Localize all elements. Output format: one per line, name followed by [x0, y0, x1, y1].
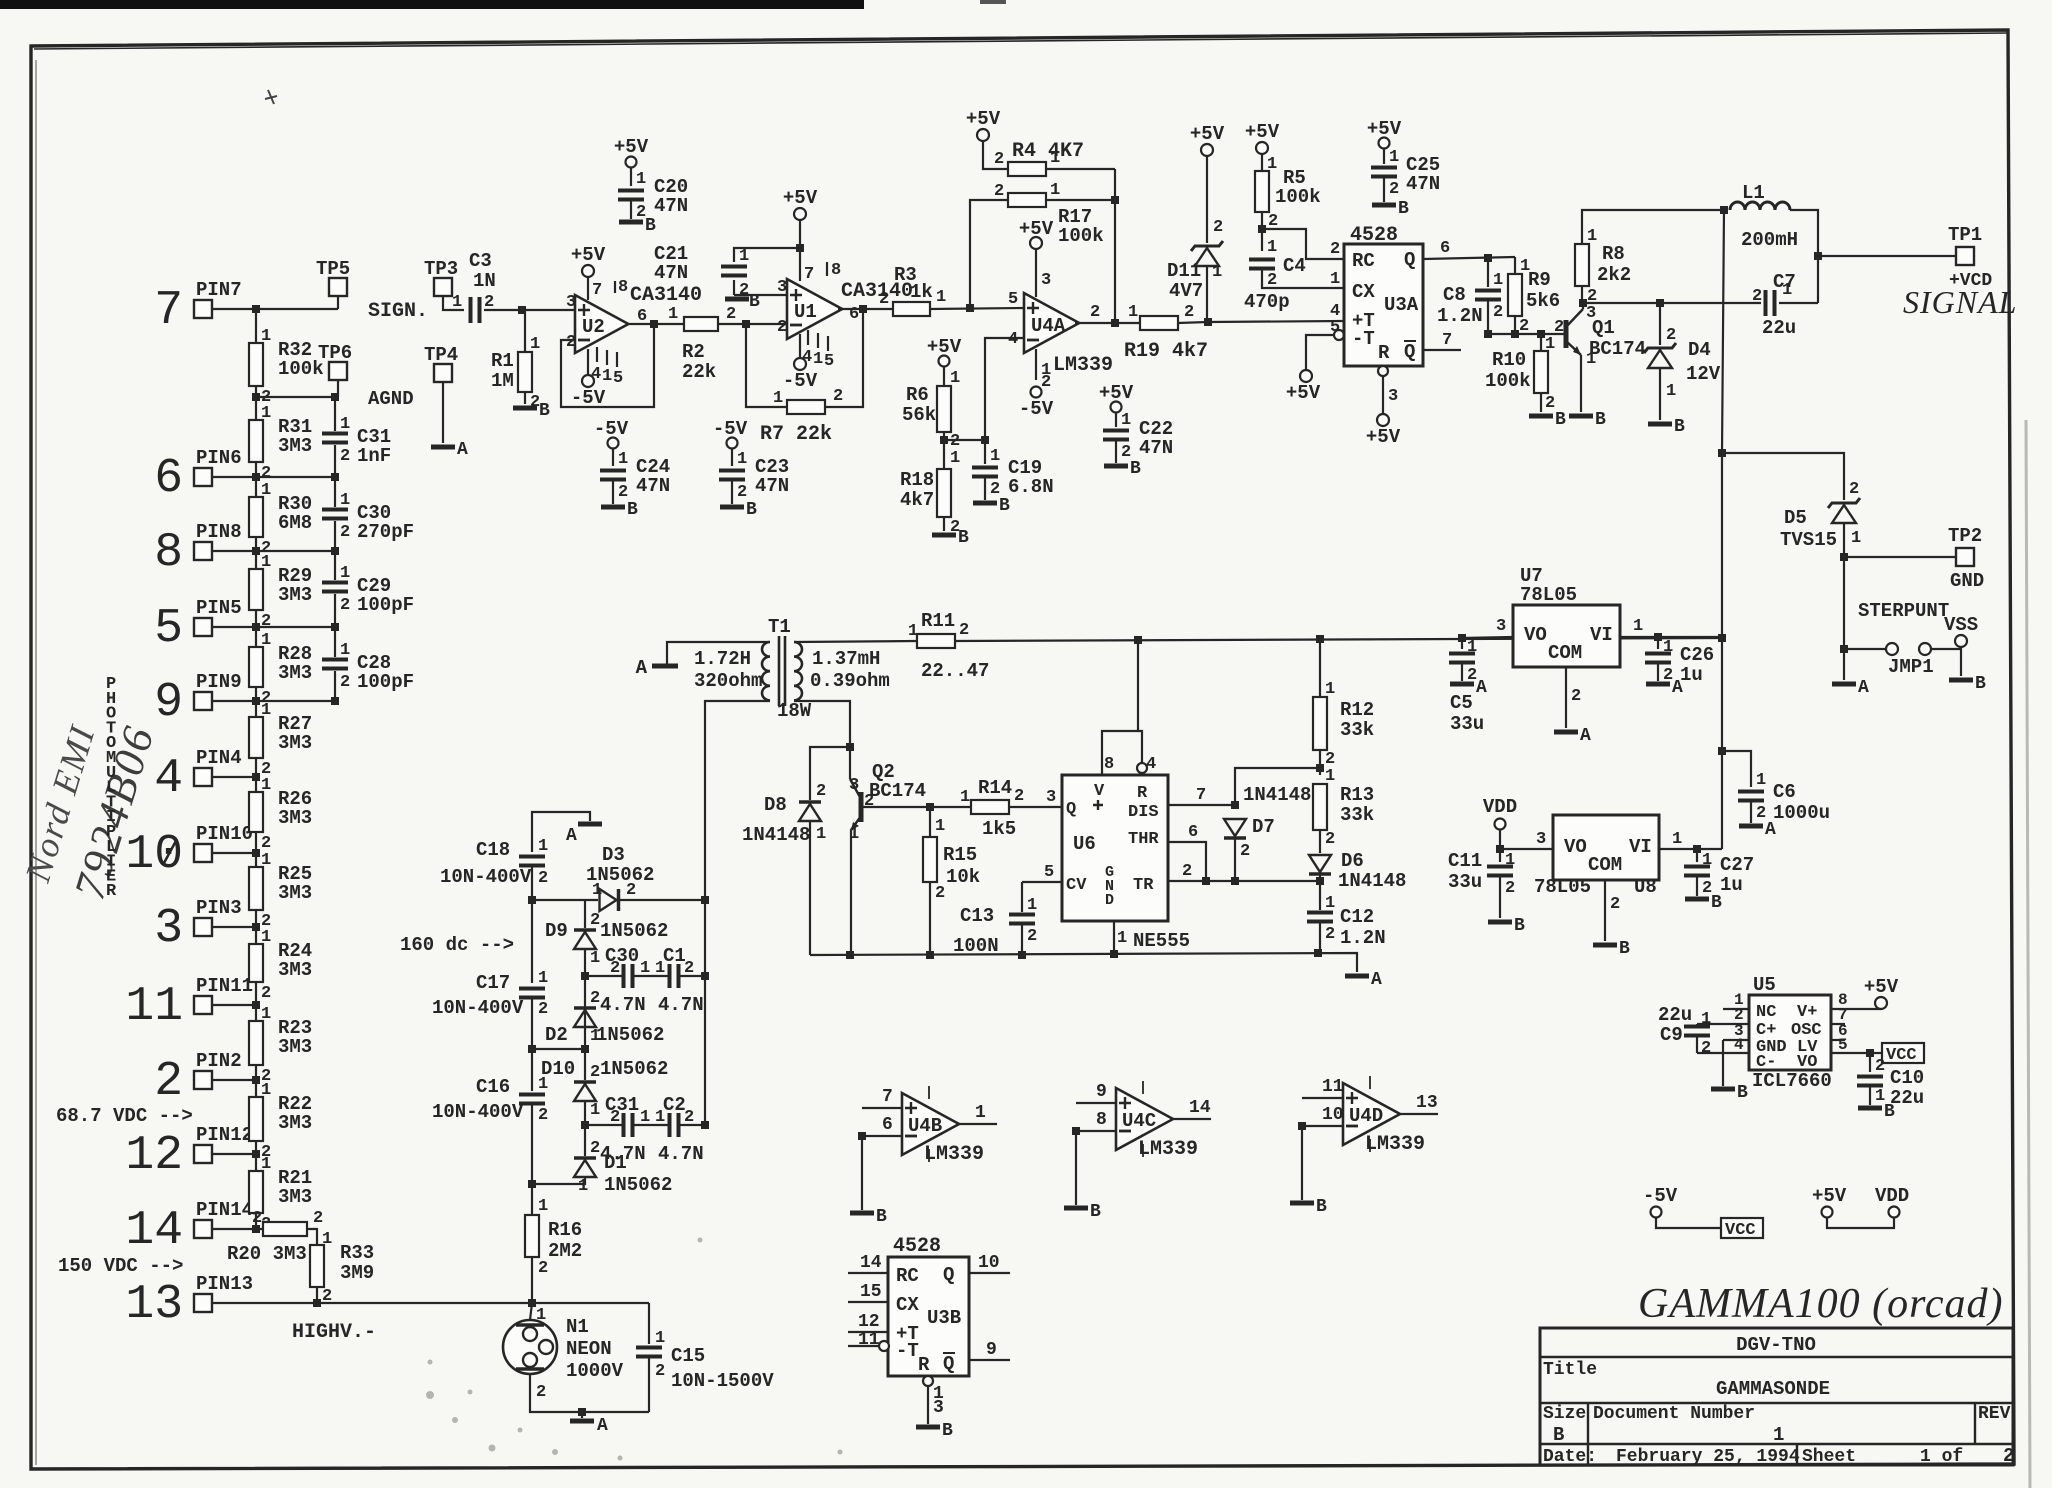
wire U7 COM pin2 — [1565, 667, 1567, 728]
svg-text:-5V: -5V — [783, 370, 818, 392]
junction — [1111, 196, 1119, 204]
junction — [1579, 299, 1587, 307]
power +5V (U3A R) — [1377, 414, 1389, 426]
svg-text:1: 1 — [261, 481, 271, 500]
diode D1 1N5062 — [574, 1156, 596, 1160]
svg-text:2: 2 — [1505, 879, 1515, 898]
svg-text:PIN7: PIN7 — [196, 279, 242, 301]
svg-text:68.7 VDC -->: 68.7 VDC --> — [56, 1105, 193, 1127]
scan right streak — [2026, 420, 2030, 1488]
wire C7 right — [1779, 302, 1818, 304]
power +5V (R4) — [977, 129, 989, 141]
svg-text:270pF: 270pF — [357, 521, 414, 543]
wire C31 to C2 — [633, 1124, 668, 1126]
svg-text:GND: GND — [1950, 570, 1984, 592]
svg-text:TP6: TP6 — [318, 342, 352, 364]
svg-text:2: 2 — [1554, 318, 1564, 337]
svg-text:Title: Title — [1543, 1360, 1597, 1380]
svg-text:6: 6 — [882, 1115, 893, 1135]
capacitor C31 — [322, 434, 348, 443]
ground B (D4) — [1648, 422, 1672, 427]
capacitor C23 — [719, 471, 745, 480]
wire C10 bottom — [1869, 1086, 1871, 1105]
wire C27 top — [1696, 849, 1698, 862]
zener D5 TVS15 — [1828, 498, 1860, 508]
svg-text:2: 2 — [655, 1362, 665, 1381]
svg-text:1N4148: 1N4148 — [1338, 870, 1406, 892]
junction — [858, 1132, 866, 1140]
wire to D1 — [584, 1125, 586, 1156]
wire R20 to R33 — [307, 1229, 317, 1245]
svg-text:2: 2 — [1184, 303, 1194, 322]
capacitor C26 — [1645, 654, 1671, 663]
svg-text:2: 2 — [261, 612, 271, 631]
svg-text:6: 6 — [154, 452, 183, 506]
svg-text:5: 5 — [1044, 863, 1054, 882]
svg-text:10N-400V: 10N-400V — [440, 866, 532, 888]
wire U6 CV — [1022, 881, 1062, 883]
svg-text:+5V: +5V — [1366, 426, 1401, 448]
svg-text:10N-400V: 10N-400V — [432, 1101, 524, 1123]
resistor R29 — [249, 569, 263, 610]
svg-text:+5V: +5V — [1286, 382, 1321, 404]
wire C4 to CX pin — [1262, 269, 1344, 288]
svg-text:5: 5 — [1008, 290, 1018, 309]
svg-text:B: B — [999, 496, 1010, 516]
svg-text:100pF: 100pF — [357, 594, 414, 616]
svg-text:1: 1 — [739, 247, 749, 266]
svg-text:R15: R15 — [943, 844, 977, 866]
svg-text:1u: 1u — [1720, 874, 1743, 896]
svg-text:1: 1 — [1325, 894, 1335, 913]
svg-text:7: 7 — [882, 1087, 893, 1107]
svg-text:33u: 33u — [1450, 713, 1484, 735]
junction — [1720, 206, 1728, 214]
wire stub — [1880, 1008, 1882, 1010]
wire T1 secondary to R11 — [794, 641, 917, 642]
resistor R9 — [1508, 274, 1522, 316]
power -5V (U2) — [582, 375, 594, 387]
wire C23 bottom — [731, 480, 733, 504]
capacitor C19 — [972, 468, 998, 477]
wire U5 pin2 — [1697, 1023, 1749, 1025]
wire C26 top — [1657, 637, 1659, 649]
svg-text:2: 2 — [536, 1383, 546, 1402]
wire PIN12 row — [212, 1153, 256, 1155]
wire PIN7 row — [212, 308, 338, 310]
svg-text:-5V: -5V — [571, 387, 606, 409]
svg-text:2: 2 — [1213, 218, 1223, 237]
ground A (C26) — [1646, 682, 1670, 687]
svg-text:1: 1 — [578, 1177, 588, 1196]
svg-text:-T: -T — [1352, 328, 1375, 350]
svg-text:D1: D1 — [604, 1152, 627, 1174]
svg-text:3M3: 3M3 — [278, 662, 312, 684]
svg-text:1: 1 — [1666, 382, 1676, 401]
wire C8 bottom — [1487, 300, 1489, 334]
resistor R27 — [249, 717, 263, 758]
pin square PIN2 — [194, 1071, 212, 1089]
svg-text:8: 8 — [1104, 755, 1114, 774]
svg-text:1: 1 — [340, 491, 350, 510]
wire U5 pin8 — [1831, 1008, 1881, 1010]
wire from C31 — [334, 445, 336, 477]
wire PIN8 row — [212, 550, 335, 552]
svg-text:CX: CX — [1352, 281, 1375, 303]
svg-text:+5V: +5V — [1864, 976, 1899, 998]
svg-text:1: 1 — [590, 949, 600, 968]
svg-text:LM339: LM339 — [924, 1143, 984, 1166]
wire U8 VI — [1659, 848, 1722, 850]
svg-text:100k: 100k — [1485, 370, 1531, 392]
junction — [1072, 1127, 1080, 1135]
capacitor C3 — [471, 297, 480, 323]
svg-text:Q: Q — [943, 1264, 954, 1286]
svg-text:B: B — [876, 1207, 887, 1227]
svg-text:9: 9 — [1096, 1082, 1107, 1102]
svg-text:C13: C13 — [960, 905, 994, 927]
junction — [1656, 299, 1664, 307]
junction — [742, 320, 750, 328]
wire C24 bottom — [612, 480, 614, 504]
svg-text:B: B — [1619, 939, 1630, 959]
svg-text:9: 9 — [154, 676, 183, 730]
svg-text:February 25, 1994: February 25, 1994 — [1616, 1447, 1800, 1467]
svg-text:2: 2 — [833, 387, 843, 406]
scan double left border line — [35, 60, 37, 1465]
svg-text:Document Number: Document Number — [1593, 1404, 1755, 1424]
junction — [578, 1408, 586, 1416]
svg-text:+5V: +5V — [783, 187, 818, 209]
svg-text:1: 1 — [1633, 617, 1643, 636]
svg-text:33u: 33u — [1448, 871, 1482, 893]
wire U3B pin12 — [848, 1331, 888, 1333]
svg-text:PIN11: PIN11 — [196, 975, 253, 997]
power +5V (R5) — [1256, 142, 1268, 154]
wire JMP1 right — [1931, 648, 1961, 650]
svg-text:11: 11 — [1322, 1077, 1344, 1097]
junction — [926, 803, 934, 811]
junction — [650, 320, 658, 328]
junction — [1231, 877, 1239, 885]
junction — [1654, 633, 1662, 641]
svg-text:1: 1 — [261, 701, 271, 720]
wire C5 to U7 VO — [1462, 637, 1513, 638]
wire U4B -in — [862, 1135, 902, 1137]
wire D8 to rail — [809, 821, 811, 955]
svg-text:B: B — [1975, 674, 1986, 694]
svg-text:Q1: Q1 — [1592, 317, 1615, 339]
title block — [1540, 1328, 2013, 1465]
wire C9 top — [1696, 1024, 1698, 1027]
wire VDD to C11 — [1499, 830, 1501, 862]
wire R8 to L1 rail — [1582, 210, 1724, 244]
svg-text:5: 5 — [1838, 1036, 1848, 1054]
wire R6 junction to C19 — [944, 439, 985, 441]
junction — [252, 473, 260, 481]
svg-text:B: B — [1737, 1083, 1748, 1103]
wire PIN10 row — [212, 852, 256, 854]
wire U3B pin14 — [848, 1272, 888, 1274]
tp square TP5 — [329, 278, 347, 296]
svg-text:3: 3 — [154, 902, 183, 956]
svg-text:2: 2 — [1330, 240, 1340, 259]
svg-text:B: B — [1090, 1202, 1101, 1222]
svg-text:1: 1 — [636, 170, 646, 189]
junction — [252, 1150, 260, 1158]
wire R5 node to RC pin — [1262, 229, 1344, 259]
svg-text:-T: -T — [896, 1340, 919, 1362]
svg-text:C7: C7 — [1773, 271, 1796, 293]
wire C26 bottom — [1657, 663, 1659, 681]
wire C18 bottom — [531, 866, 533, 899]
wire PIN14 row — [212, 1228, 263, 1230]
svg-text:1: 1 — [452, 293, 462, 312]
wire R2 to U1 -in — [718, 323, 787, 325]
wire R6 to R18 — [943, 432, 945, 469]
op-amp U4D — [1343, 1083, 1400, 1145]
svg-text:PIN9: PIN9 — [196, 671, 242, 693]
reset bubble U6 pin4 — [1137, 763, 1147, 773]
wire U1 pin8 stub — [826, 262, 828, 276]
svg-text:5k6: 5k6 — [1526, 290, 1560, 312]
wire U4A -in to R6/R18 node — [985, 338, 1024, 440]
svg-text:U3A: U3A — [1384, 294, 1419, 316]
svg-text:C17: C17 — [476, 972, 510, 994]
wire JMP1 left — [1844, 648, 1886, 650]
resistor R11 — [917, 634, 955, 648]
svg-text:+5V: +5V — [614, 136, 649, 158]
op-amp U2 — [575, 295, 628, 353]
svg-text:1: 1 — [530, 335, 540, 354]
wire U4D +in — [1302, 1097, 1343, 1099]
wire TP3 to C3 — [443, 296, 464, 310]
svg-text:47N: 47N — [1139, 437, 1173, 459]
svg-text:2: 2 — [538, 1259, 548, 1278]
inductor L1 — [1730, 202, 1790, 210]
wire AGND row — [256, 396, 335, 398]
wire rail to U6 V+ — [1102, 640, 1138, 775]
resistor R25 — [249, 867, 263, 910]
wire C8 top — [1487, 258, 1489, 287]
wire R19 to U3A +T — [1178, 321, 1344, 323]
svg-text:C6: C6 — [1773, 781, 1796, 803]
wire VSS to ground — [1960, 647, 1962, 676]
svg-text:3M3: 3M3 — [278, 1112, 312, 1134]
wire Q1 collector — [1582, 303, 1584, 309]
svg-text:R1: R1 — [491, 350, 514, 372]
svg-text:R9: R9 — [1528, 269, 1551, 291]
wire C18 to A — [532, 812, 590, 852]
wire PIN2 row — [212, 1079, 256, 1081]
junction — [1258, 225, 1266, 233]
junction — [331, 393, 339, 401]
junction — [252, 393, 260, 401]
resistor R30 — [249, 497, 263, 537]
svg-text:2: 2 — [2003, 1445, 2014, 1467]
power +5V (U5) — [1875, 997, 1887, 1009]
capacitor C9 — [1684, 1027, 1710, 1036]
capacitor C30 — [624, 964, 633, 988]
svg-text:1: 1 — [261, 928, 271, 947]
svg-text:1N5062: 1N5062 — [596, 1024, 664, 1046]
wire from C30 — [334, 521, 336, 551]
wire +5V to R5 — [1261, 154, 1263, 171]
zener D11 — [1191, 241, 1223, 251]
wire C25 bottom — [1383, 177, 1385, 202]
svg-text:R6: R6 — [906, 384, 929, 406]
capacitor C10 — [1857, 1077, 1883, 1086]
svg-text:4: 4 — [1734, 1036, 1744, 1054]
svg-text:N1: N1 — [566, 1316, 589, 1338]
svg-text:-5V: -5V — [1643, 1185, 1678, 1207]
wire from C28 — [334, 671, 336, 701]
svg-text:PIN4: PIN4 — [196, 747, 242, 769]
svg-text:TP4: TP4 — [424, 344, 458, 366]
wire U4B +in — [862, 1107, 902, 1109]
resistor R33 — [310, 1245, 324, 1287]
svg-text:1nF: 1nF — [357, 445, 391, 467]
svg-text:B: B — [1555, 410, 1566, 430]
wire R33 to HIGHV — [316, 1287, 318, 1303]
junction — [1202, 877, 1210, 885]
svg-text:6: 6 — [1440, 239, 1450, 258]
svg-text:3: 3 — [566, 293, 576, 312]
svg-text:+5V: +5V — [571, 244, 606, 266]
wire Q1 emitter — [1580, 355, 1582, 412]
capacitor C31 (lower) — [624, 1113, 633, 1137]
svg-text:+5V: +5V — [966, 108, 1001, 130]
resistor R1 — [518, 352, 532, 392]
svg-text:1: 1 — [538, 969, 548, 988]
svg-text:33k: 33k — [1340, 719, 1374, 741]
capacitor C18 — [519, 857, 545, 866]
diode D3 1N5062 — [617, 889, 621, 911]
resistor R3 — [893, 302, 930, 316]
capacitor C5 — [1449, 654, 1475, 663]
svg-text:C27: C27 — [1720, 854, 1754, 876]
wire R14 to U6 Q — [1009, 806, 1062, 808]
svg-text:12: 12 — [125, 1129, 183, 1183]
svg-text:V+: V+ — [1797, 1003, 1817, 1022]
resistor R19 — [1140, 316, 1178, 330]
svg-text:2: 2 — [864, 792, 874, 811]
svg-text:22u: 22u — [1762, 317, 1796, 339]
svg-text:1: 1 — [950, 449, 960, 468]
diode D6 1N4148 — [1309, 872, 1331, 876]
svg-text:14: 14 — [125, 1204, 183, 1258]
ground A (C5) — [1450, 682, 1474, 687]
wire U4D tick top — [1369, 1076, 1371, 1089]
wire C12 bottom — [1319, 922, 1321, 954]
svg-text:B: B — [1711, 893, 1722, 913]
svg-text:1: 1 — [261, 553, 271, 572]
wire to C30 — [585, 975, 622, 977]
svg-text:VCC: VCC — [1886, 1046, 1917, 1065]
wire PIN6 row — [212, 476, 335, 478]
capacitor C13 — [1009, 915, 1035, 924]
junction — [940, 436, 948, 444]
svg-text:7: 7 — [154, 284, 183, 338]
wire TP5 stub — [337, 296, 339, 309]
wire U3B pin15 — [848, 1301, 888, 1303]
svg-text:B: B — [1130, 459, 1141, 479]
svg-text:B: B — [539, 401, 550, 421]
ground B (U3B) — [916, 1425, 940, 1430]
svg-text:GAMMASONDE: GAMMASONDE — [1716, 1378, 1830, 1400]
svg-text:C2: C2 — [663, 1094, 686, 1116]
pin square PIN10 — [194, 844, 212, 862]
svg-text:7: 7 — [1442, 331, 1452, 350]
svg-text:VI: VI — [1590, 624, 1613, 646]
svg-text:1: 1 — [1117, 929, 1127, 948]
wire T1 secondary bottom — [794, 701, 850, 747]
wire U4D -in — [1302, 1125, 1343, 1127]
wire D9 to C30 row — [584, 949, 586, 1006]
svg-text:2: 2 — [340, 447, 350, 466]
svg-text:CA3140: CA3140 — [630, 284, 702, 307]
junction — [331, 547, 339, 555]
tp square TP1 — [1956, 247, 1974, 265]
svg-text:R12: R12 — [1340, 699, 1374, 721]
wire C15 bottom — [648, 1357, 650, 1412]
svg-text:2: 2 — [994, 150, 1004, 169]
svg-text:3: 3 — [1496, 617, 1506, 636]
resistor R31 — [249, 420, 263, 462]
wire C20 top — [630, 168, 632, 186]
svg-text:2: 2 — [959, 621, 969, 640]
resistor R32 — [249, 343, 263, 386]
svg-text:TP2: TP2 — [1948, 525, 1982, 547]
wire U3B pin11 — [848, 1345, 880, 1347]
svg-text:1: 1 — [813, 350, 823, 369]
op-amp U4A — [1024, 293, 1079, 353]
svg-text:1: 1 — [340, 415, 350, 434]
svg-text:A: A — [1765, 820, 1776, 840]
svg-text:LM339: LM339 — [1138, 1138, 1198, 1161]
ground B (R1) — [513, 406, 537, 411]
svg-text:6: 6 — [849, 305, 859, 324]
wire C15 top — [648, 1303, 650, 1344]
resistor R28 — [249, 647, 263, 687]
wire main vertical rail — [1722, 210, 1724, 849]
power +5V (U1 pin7) — [794, 208, 806, 220]
wire C19 top — [984, 440, 986, 464]
svg-text:4528: 4528 — [893, 1235, 941, 1258]
wire R16 to HIGHV — [531, 1257, 533, 1303]
svg-text:U4A: U4A — [1031, 315, 1066, 337]
svg-text:REV: REV — [1978, 1404, 2011, 1424]
wire C17 bottom — [531, 998, 533, 1049]
svg-text:VDD: VDD — [1875, 1185, 1909, 1207]
svg-text:2: 2 — [340, 596, 350, 615]
capacitor C11 — [1487, 867, 1513, 876]
svg-text:C26: C26 — [1680, 644, 1714, 666]
junction — [1018, 951, 1026, 959]
svg-text:47N: 47N — [654, 262, 688, 284]
svg-text:10k: 10k — [946, 866, 980, 888]
svg-text:HIGHV.-: HIGHV.- — [292, 1321, 376, 1344]
junction — [518, 306, 526, 314]
svg-text:2: 2 — [538, 1000, 548, 1019]
ground B (C22) — [1104, 464, 1128, 469]
junction — [252, 923, 260, 931]
junction — [1204, 318, 1212, 326]
svg-text:3M3: 3M3 — [278, 1036, 312, 1058]
svg-text:Size: Size — [1543, 1404, 1586, 1424]
svg-text:3M3: 3M3 — [278, 584, 312, 606]
svg-text:COM: COM — [1548, 642, 1582, 664]
